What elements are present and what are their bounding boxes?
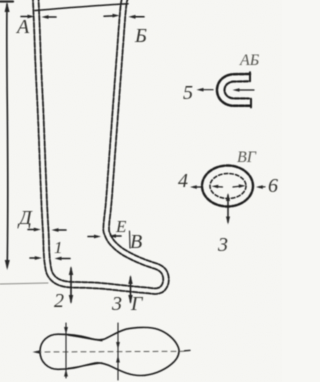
sole-level extension line: [0, 283, 48, 284]
label 5 leader arrow: [200, 89, 213, 91]
svg-text:3: 3: [111, 293, 122, 315]
sole inner bottom line: [68, 363, 102, 368]
cuff cross-section AB outer: [217, 74, 251, 106]
boot inner contour: [38, 0, 163, 288]
sole centerline dashed: [36, 350, 184, 353]
centerline left arrowhead: [33, 350, 41, 354]
top-left border tick: [0, 0, 13, 2]
foot VG inner dashed ellipse: [210, 174, 246, 199]
boot top edge: [35, 4, 128, 11]
boot outer contour: [33, 0, 169, 294]
svg-text:6: 6: [268, 175, 278, 197]
cuff AB centre arrow: [237, 89, 254, 91]
svg-text:1: 1: [54, 238, 63, 257]
svg-text:Г: Г: [130, 293, 144, 315]
dimension arrowhead up: [5, 2, 10, 12]
width arrow pair at E: [88, 236, 97, 238]
label 6 leader arrow: [259, 186, 266, 188]
foot cross-section VG outer ellipse: [202, 166, 253, 207]
width arrow pair at D: [28, 229, 37, 231]
svg-text:Д: Д: [17, 207, 33, 229]
width arrow pair top-right: [104, 15, 115, 18]
svg-text:2: 2: [54, 290, 64, 312]
width arrow pair at 1: [30, 257, 38, 259]
vertical double arrow at 3 G: [130, 277, 132, 302]
svg-text:Б: Б: [134, 25, 147, 47]
tick below E: [129, 231, 132, 248]
svg-text:АБ: АБ: [239, 52, 260, 69]
svg-text:ВГ: ВГ: [237, 149, 257, 166]
VG vertical double arrow: [227, 195, 229, 222]
svg-text:А: А: [15, 16, 30, 38]
cuff AB top arm cap: [249, 72, 251, 81]
sole ball cross line: [117, 323, 119, 380]
label 4 leader arrow: [194, 186, 202, 188]
svg-text:5: 5: [183, 82, 193, 104]
dimension arrowhead down: [5, 260, 10, 270]
vertical double arrow at 2: [70, 268, 72, 302]
svg-text:3: 3: [217, 234, 228, 256]
width arrow pair top-left: [21, 16, 31, 18]
height dimension line (left): [7, 4, 8, 267]
VG inner left arrow: [216, 186, 223, 188]
svg-text:В: В: [130, 231, 142, 253]
svg-text:Е: Е: [115, 217, 127, 236]
sole outline: [40, 327, 179, 375]
VG inner right arrow: [233, 185, 240, 188]
svg-text:4: 4: [178, 170, 188, 192]
cuff AB bottom arm cap: [250, 99, 252, 108]
sole inner top line: [68, 335, 102, 341]
sole heel cross line: [65, 323, 67, 378]
centerline right tick: [185, 349, 191, 351]
cuff AB inner outline: [225, 81, 250, 98]
